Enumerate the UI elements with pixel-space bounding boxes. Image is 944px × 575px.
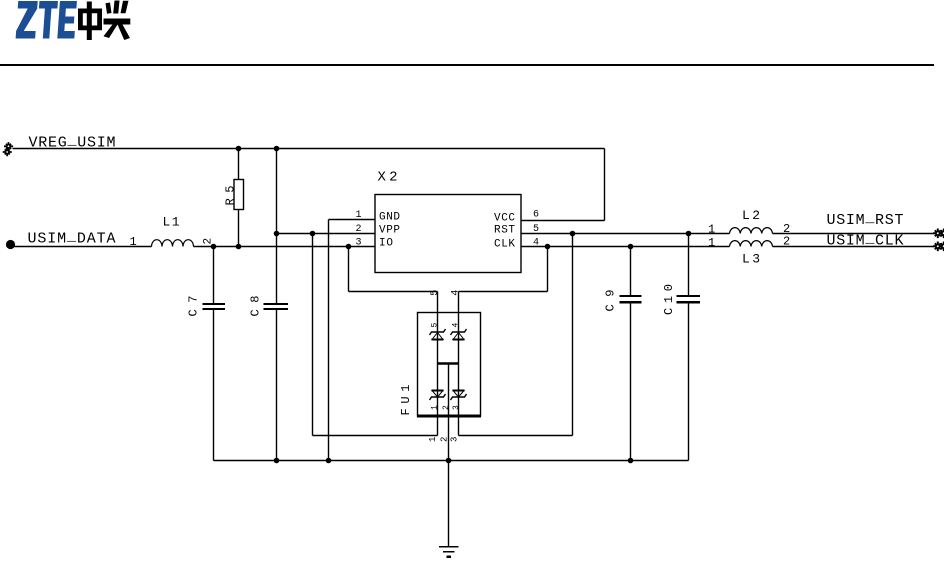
- wire C7 vertical upper: [213, 247, 215, 304]
- wire R5 bottom: [238, 210, 240, 247]
- svg-text:CLK: CLK: [494, 239, 515, 251]
- wire C8 vertical lower: [276, 310, 278, 461]
- wire VPP pin 2: [277, 233, 375, 235]
- diode D-bottom-right of FU1: [451, 391, 467, 401]
- svg-text:6: 6: [533, 210, 539, 221]
- ground: [439, 547, 459, 557]
- off-page connector USIM_CLK: [933, 242, 944, 252]
- wire ground stem: [448, 461, 450, 547]
- svg-text:L1: L1: [163, 215, 180, 230]
- wire R5 top: [238, 149, 240, 180]
- capacitor C10: [677, 296, 701, 302]
- wire VREG_USIM horizontal: [13, 148, 605, 150]
- svg-text:VCC: VCC: [494, 213, 515, 225]
- svg-text:USIM_RST: USIM_RST: [827, 210, 904, 230]
- capacitor C7: [203, 304, 226, 309]
- wire C10 vertical upper: [688, 234, 690, 296]
- svg-text:3: 3: [450, 437, 460, 442]
- svg-text:C10: C10: [662, 284, 676, 315]
- svg-text:1: 1: [428, 437, 438, 442]
- wire C7 vertical lower: [213, 310, 215, 461]
- svg-text:5: 5: [431, 323, 440, 328]
- wire CLK pin 4: [521, 246, 730, 248]
- wire RST pin 5: [521, 233, 730, 235]
- capacitor C8: [264, 304, 289, 309]
- svg-text:2: 2: [440, 437, 450, 442]
- svg-text:1: 1: [708, 236, 715, 250]
- svg-text:2: 2: [783, 235, 790, 249]
- wire C10 vertical lower: [688, 303, 690, 461]
- svg-text:2: 2: [203, 238, 215, 245]
- horizontal rule: [0, 64, 934, 66]
- wire FU1 pin 2 to ground bus: [448, 365, 450, 461]
- wire FU1 pin 4 stub: [458, 292, 460, 313]
- wire CLK branch vertical: [547, 247, 549, 292]
- inductor L1: [152, 240, 194, 247]
- svg-text:GND: GND: [379, 212, 400, 224]
- svg-text:FU1: FU1: [399, 385, 413, 416]
- ZTE logo hanzi ZHONG: [78, 2, 102, 41]
- svg-text:1: 1: [431, 405, 440, 410]
- ESD array FU1 box: [417, 313, 481, 417]
- wire FU1 pin 3 stub: [458, 417, 460, 436]
- wire USIM_CLK right: [773, 246, 934, 248]
- wire C9 vertical lower: [630, 303, 632, 461]
- ZTE logo letter E: [57, 1, 77, 39]
- FU1 internal left rail: [437, 313, 439, 417]
- wire VCC pin 6: [521, 220, 605, 222]
- wire C8 vertical upper: [276, 149, 278, 304]
- wire GND vertical: [328, 220, 330, 461]
- off-page connector VREG_USIM: [3, 142, 13, 156]
- inductor L2: [730, 228, 773, 234]
- ZTE logo letter Z: [16, 1, 38, 39]
- resistor R5: [234, 180, 244, 210]
- diode D-top-left of FU1: [430, 329, 446, 340]
- wire FU1 pin 5 stub: [437, 292, 439, 313]
- off-page connector USIM_RST: [933, 229, 944, 239]
- svg-text:2: 2: [442, 405, 451, 410]
- svg-text:1: 1: [708, 223, 715, 237]
- svg-text:1: 1: [130, 235, 137, 249]
- svg-text:USIM_DATA: USIM_DATA: [28, 228, 116, 248]
- wire VREG down to VCC: [604, 149, 606, 221]
- svg-text:3: 3: [356, 238, 362, 249]
- svg-text:3: 3: [452, 405, 461, 410]
- svg-text:4: 4: [533, 238, 539, 249]
- wire VPP branch vertical: [312, 234, 314, 436]
- wire RST branch vertical: [572, 234, 574, 436]
- wire ground bus: [214, 460, 689, 462]
- wire branch to FU1 pin 1: [313, 435, 438, 437]
- svg-text:4: 4: [451, 290, 462, 296]
- wire branch to FU1 pin 3: [459, 435, 573, 437]
- wire USIM_DATA left: [15, 246, 152, 248]
- svg-text:RST: RST: [494, 225, 515, 237]
- ZTE logo hanzi XING: [104, 1, 131, 41]
- svg-text:5: 5: [430, 290, 441, 296]
- SIM socket U X2 box: [375, 195, 521, 273]
- wire IO branch horizontal: [349, 291, 438, 293]
- wire IO branch vertical: [348, 247, 350, 292]
- svg-text:VREG_USIM: VREG_USIM: [29, 132, 116, 152]
- off-page connector USIM_DATA: [6, 240, 15, 249]
- svg-text:1: 1: [356, 210, 362, 221]
- wire USIM_DATA to IO pin 3: [194, 246, 375, 248]
- diode D-bottom-left of FU1: [430, 391, 446, 401]
- wire C9 vertical upper: [630, 247, 632, 296]
- wire USIM_RST right: [773, 233, 934, 235]
- svg-text:5: 5: [533, 224, 539, 235]
- wire GND pin 1: [329, 219, 375, 221]
- diode D-top-right of FU1: [451, 329, 467, 340]
- inductor L3: [730, 241, 773, 247]
- svg-text:VPP: VPP: [379, 225, 400, 237]
- ZTE logo letter T: [37, 1, 58, 39]
- FU1 internal right rail: [458, 313, 460, 417]
- svg-text:IO: IO: [379, 238, 393, 250]
- svg-text:USIM_CLK: USIM_CLK: [827, 230, 904, 250]
- wire FU1 pin 1 stub: [437, 417, 439, 436]
- svg-text:2: 2: [356, 224, 362, 235]
- FU1 internal middle bar: [438, 362, 459, 365]
- svg-text:4: 4: [452, 323, 461, 328]
- capacitor C9: [620, 296, 642, 302]
- wire CLK branch horizontal: [459, 291, 548, 293]
